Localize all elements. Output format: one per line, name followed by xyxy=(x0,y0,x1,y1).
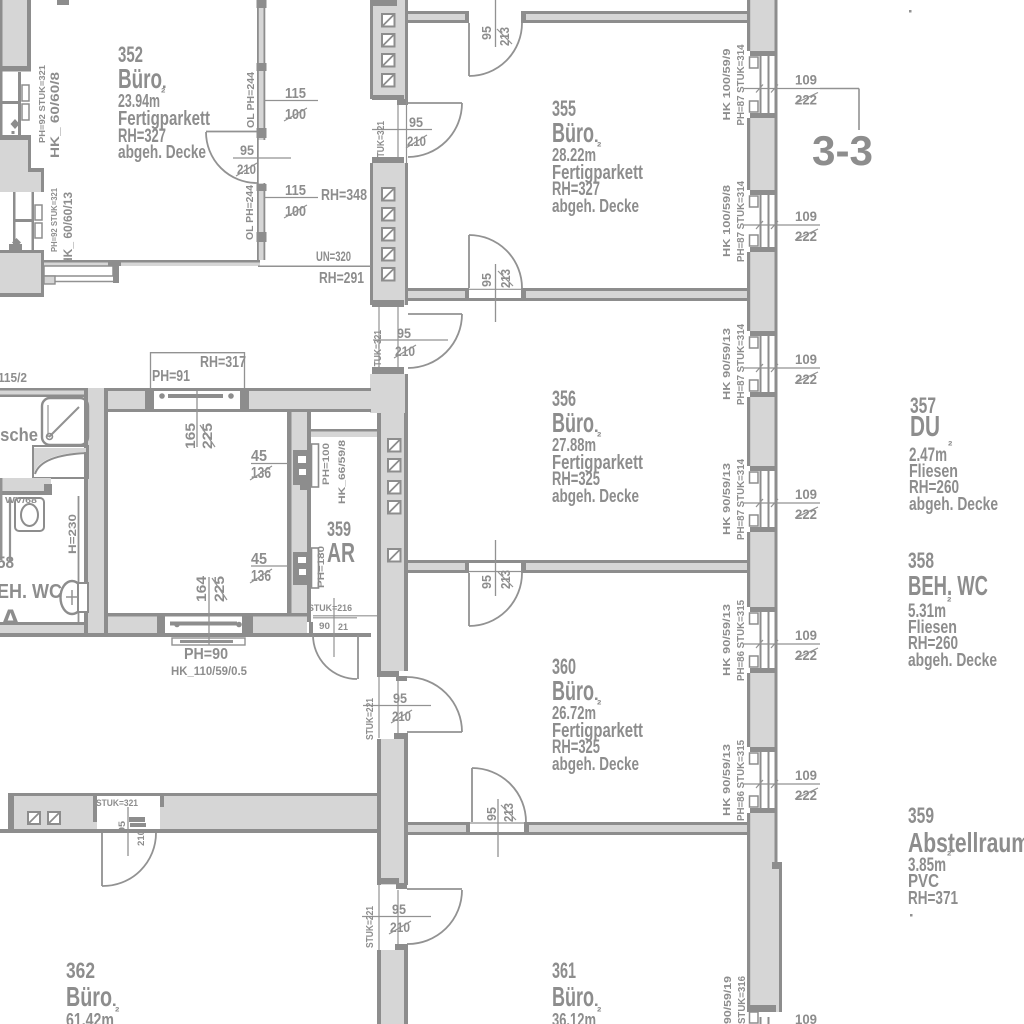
svg-text:109: 109 xyxy=(795,208,817,224)
svg-text:PH=100: PH=100 xyxy=(321,443,332,485)
vanity counter xyxy=(33,446,88,478)
svg-text:61.42m: 61.42m xyxy=(66,1010,114,1024)
label WV/68 xyxy=(5,496,38,505)
hatch squares corridor wall xyxy=(28,812,60,824)
wall top horizontal xyxy=(408,11,747,23)
svg-text:STUK=321: STUK=321 xyxy=(372,330,384,372)
svg-text:STUK=321: STUK=321 xyxy=(375,121,387,163)
svg-text:²: ² xyxy=(161,85,166,100)
dot upper right xyxy=(909,10,912,13)
dimension 165/225 xyxy=(183,391,215,449)
wall right exterior lower wide xyxy=(747,862,782,1012)
window right wall W6 109/222 xyxy=(722,739,820,821)
hatch squares S1 xyxy=(382,14,395,87)
label room 362 xyxy=(66,958,120,1024)
svg-text:PH=92 STUK=321: PH=92 STUK=321 xyxy=(37,65,47,143)
svg-text:RH=291: RH=291 xyxy=(319,270,364,287)
svg-text:RH=317: RH=317 xyxy=(200,354,246,371)
svg-text:²: ² xyxy=(597,429,602,444)
wall central segment S4 xyxy=(377,739,408,885)
shower tray xyxy=(42,398,88,445)
door D4 central 95/210 xyxy=(362,878,462,950)
svg-text:95: 95 xyxy=(479,273,494,287)
wall left pier1 xyxy=(0,0,31,72)
svg-text:PH=92 STUK=321: PH=92 STUK=321 xyxy=(49,188,59,252)
svg-text:115/2: 115/2 xyxy=(0,371,27,385)
svg-text:HK_66/59/8: HK_66/59/8 xyxy=(337,440,348,504)
hatch squares S2 xyxy=(382,188,395,281)
wall central segment S1 xyxy=(370,0,408,105)
svg-text:STUK=216: STUK=216 xyxy=(308,603,352,614)
dot lower right xyxy=(910,914,913,917)
radiator R2 PH=180 xyxy=(293,548,319,588)
label 115/2 left edge xyxy=(0,371,27,385)
wall D vertical xyxy=(287,412,311,613)
svg-text:PH=87 STUK=314: PH=87 STUK=314 xyxy=(736,323,747,405)
door D2 central 95/210 xyxy=(372,300,462,374)
svg-text:²: ² xyxy=(947,594,952,609)
door D1 central 95/210 xyxy=(372,100,462,163)
svg-text:109: 109 xyxy=(795,767,817,783)
svg-text:45: 45 xyxy=(251,448,267,465)
svg-text:95: 95 xyxy=(397,325,411,341)
svg-text:95: 95 xyxy=(409,114,423,130)
svg-text:PH=91: PH=91 xyxy=(152,368,190,385)
door glazing 95/210 xyxy=(206,132,291,184)
svg-text:STUK=221: STUK=221 xyxy=(364,698,376,740)
svg-text:90/59/19: 90/59/19 xyxy=(722,976,734,1024)
svg-text:Büro: Büro xyxy=(552,675,594,706)
label RH=291 xyxy=(319,270,364,287)
wall band room 352 bottom xyxy=(44,260,371,266)
svg-text:PH=87 STUK=314: PH=87 STUK=314 xyxy=(736,44,747,126)
label sche xyxy=(0,425,38,445)
label room 359 AR xyxy=(327,518,355,568)
svg-text:HK 90/59/13: HK 90/59/13 xyxy=(722,743,733,816)
svg-text:109: 109 xyxy=(795,72,817,88)
svg-text:164: 164 xyxy=(194,575,209,602)
svg-text:95: 95 xyxy=(479,26,494,40)
svg-text:36.12m: 36.12m xyxy=(552,1010,596,1024)
svg-text:165: 165 xyxy=(183,422,198,449)
label room 355 xyxy=(552,96,643,216)
svg-text:PH=180: PH=180 xyxy=(316,546,327,588)
svg-text:95: 95 xyxy=(484,807,499,821)
wall central segment S3 narrow xyxy=(377,413,408,671)
wall right exterior piers xyxy=(747,0,778,866)
door wall2 95/213 xyxy=(469,235,522,322)
label room 361 xyxy=(552,958,602,1024)
door wall4 95/213 xyxy=(472,768,526,857)
svg-text:abgeh. Decke: abgeh. Decke xyxy=(909,494,998,514)
washbasin xyxy=(15,498,44,531)
svg-text:OL PH=244: OL PH=244 xyxy=(245,185,256,240)
labels OL PH=244 xyxy=(245,72,257,240)
svg-text:109: 109 xyxy=(795,486,817,502)
svg-text:HK 90/59/13: HK 90/59/13 xyxy=(722,462,733,535)
wall B vertical xyxy=(84,388,108,637)
section marker 3-3 xyxy=(812,89,873,175)
svg-text:DU: DU xyxy=(910,411,940,443)
label 358 BEH. WC left xyxy=(0,554,62,634)
AR beam line xyxy=(311,429,377,437)
svg-text:²: ² xyxy=(597,1004,602,1019)
svg-text:3-3: 3-3 xyxy=(812,127,873,174)
glazing partition room 352 xyxy=(257,0,267,260)
pocket door niche xyxy=(44,262,121,284)
svg-text:RH=371: RH=371 xyxy=(908,888,958,908)
svg-text:BEH. WC: BEH. WC xyxy=(0,580,62,603)
svg-text:Büro: Büro xyxy=(66,981,112,1012)
wall A left thin xyxy=(0,388,89,397)
svg-text:109: 109 xyxy=(795,1011,817,1024)
svg-text:90: 90 xyxy=(319,621,330,632)
svg-text:AR: AR xyxy=(327,537,355,568)
door corridor STUK=321 95/210 xyxy=(93,793,164,886)
dimension 164/225 xyxy=(194,575,227,645)
dimension 115/100 upper xyxy=(264,86,318,123)
svg-text:21: 21 xyxy=(338,622,349,633)
svg-text:359: 359 xyxy=(908,803,934,828)
svg-text:PH=87 STUK=314: PH=87 STUK=314 xyxy=(736,180,747,262)
door D3 central 95/210 xyxy=(363,671,462,740)
svg-text:RH=348: RH=348 xyxy=(321,187,367,204)
svg-text:115: 115 xyxy=(285,86,306,102)
svg-text:95: 95 xyxy=(240,142,254,158)
svg-text:²: ² xyxy=(597,697,602,712)
window right wall W4 109/222 xyxy=(722,458,820,540)
labels window L2 xyxy=(49,188,75,266)
svg-text:PH=86 STUK=315: PH=86 STUK=315 xyxy=(736,599,747,681)
label H=230 xyxy=(67,496,79,627)
svg-text:abgeh. Decke: abgeh. Decke xyxy=(552,485,639,506)
window right wall W2 109/222 xyxy=(722,180,820,262)
hatch squares S3 xyxy=(388,439,401,562)
svg-text:PH=90: PH=90 xyxy=(184,646,228,663)
radiator R1 HK_66/59/8 xyxy=(293,444,319,490)
label room 358 BEH. WC xyxy=(908,548,997,670)
svg-text:HK_ 60/60/13: HK_ 60/60/13 xyxy=(63,192,75,266)
door wall3 95/213 xyxy=(469,540,522,626)
window right wall W5 109/222 xyxy=(722,599,820,681)
svg-text:PH=86 STUK=315: PH=86 STUK=315 xyxy=(736,739,747,821)
svg-text:PH=87 STUK=314: PH=87 STUK=314 xyxy=(736,458,747,540)
wall central segment S3 upper junction xyxy=(370,374,408,413)
svg-text:H=230: H=230 xyxy=(67,514,79,554)
window right wall W3 109/222 xyxy=(722,323,820,405)
wall left pier3 block xyxy=(0,244,44,297)
labels R1 xyxy=(321,440,348,504)
dimension 45/136 R2 xyxy=(250,551,288,585)
svg-text:Dusche: Dusche xyxy=(0,425,38,445)
svg-text:95: 95 xyxy=(392,901,406,917)
window right wall W1 109/222 xyxy=(722,44,820,126)
wall central segment S5 xyxy=(377,950,408,1024)
label room 357 DU xyxy=(909,393,998,514)
window left L1 xyxy=(0,72,29,135)
svg-text:HK 90/59/13: HK 90/59/13 xyxy=(722,327,733,400)
svg-text:HK_ 60/60/8: HK_ 60/60/8 xyxy=(50,71,62,158)
labels window L1 xyxy=(37,65,62,158)
toilet xyxy=(61,581,89,614)
dimension 45/136 R1 xyxy=(250,448,288,482)
svg-text:²: ² xyxy=(948,438,953,453)
svg-text:Büro: Büro xyxy=(118,63,162,94)
svg-text:²: ² xyxy=(115,1004,120,1019)
label R2 xyxy=(316,546,327,588)
wall rooms 356/360 xyxy=(408,560,747,573)
svg-text:58: 58 xyxy=(0,554,14,572)
svg-text:HK 90/59/13: HK 90/59/13 xyxy=(722,603,733,676)
wall rooms 360/361 xyxy=(408,822,747,835)
svg-text:HK_110/59/0.5: HK_110/59/0.5 xyxy=(171,666,248,678)
svg-text:Büro: Büro xyxy=(552,117,594,148)
wall rooms 355/356 xyxy=(408,288,747,301)
dimension bracket PH=90 HK_110/59/0.5 xyxy=(171,638,248,678)
svg-text:²: ² xyxy=(947,848,952,863)
svg-text:STUK=316: STUK=316 xyxy=(736,976,748,1024)
svg-text:95: 95 xyxy=(479,575,494,589)
svg-text:95: 95 xyxy=(117,820,128,833)
label UN=320 xyxy=(316,248,351,264)
svg-text:HK 100/59/8: HK 100/59/8 xyxy=(722,184,733,257)
svg-text:Büro: Büro xyxy=(552,981,594,1012)
svg-text:HK 100/59/9: HK 100/59/9 xyxy=(722,48,733,121)
label room 352 xyxy=(118,42,210,162)
window left L2 xyxy=(12,192,42,250)
wall corridor bottom xyxy=(0,793,377,833)
svg-text:Abstellraum: Abstellraum xyxy=(908,827,1024,858)
svg-text:Büro: Büro xyxy=(552,407,594,438)
label room 360 xyxy=(552,654,643,774)
svg-text:OL PH=244: OL PH=244 xyxy=(246,72,257,128)
door top wall 95/213 xyxy=(469,0,522,76)
label room 356 xyxy=(552,386,643,506)
svg-text:115: 115 xyxy=(285,183,306,199)
svg-text:109: 109 xyxy=(795,627,817,643)
dimension box PH=91 RH=317 xyxy=(151,352,247,388)
svg-text:abgeh. Decke: abgeh. Decke xyxy=(552,753,639,774)
svg-text:abgeh. Decke: abgeh. Decke xyxy=(908,650,997,670)
wall E band Dusche/WC xyxy=(0,478,52,495)
wall central segment S2 xyxy=(370,163,408,305)
svg-text:361: 361 xyxy=(552,958,576,983)
svg-text:109: 109 xyxy=(795,351,817,367)
svg-text:95: 95 xyxy=(393,690,407,706)
label room 359 Abstellraum xyxy=(908,803,1024,908)
wall lines WC left xyxy=(1,478,10,562)
svg-text:210: 210 xyxy=(136,830,147,846)
window right wall W7 partial xyxy=(722,976,817,1024)
svg-text:²: ² xyxy=(597,139,602,154)
svg-text:UN=320: UN=320 xyxy=(316,248,351,264)
wall A thick with window PH=91 xyxy=(89,388,371,412)
dimension 115/100 lower + RH=348 xyxy=(264,183,367,220)
svg-text:STUK=321: STUK=321 xyxy=(96,798,139,809)
wall C corridor with window PH=90 xyxy=(0,613,371,637)
svg-text:abgeh. Decke: abgeh. Decke xyxy=(118,141,206,162)
wall left pier2 xyxy=(0,135,44,192)
door AR STUK=216 xyxy=(308,598,377,679)
top edge mark xyxy=(57,0,69,5)
svg-text:STUK=221: STUK=221 xyxy=(364,906,376,948)
svg-text:362: 362 xyxy=(66,958,95,983)
svg-text:abgeh. Decke: abgeh. Decke xyxy=(552,195,639,216)
